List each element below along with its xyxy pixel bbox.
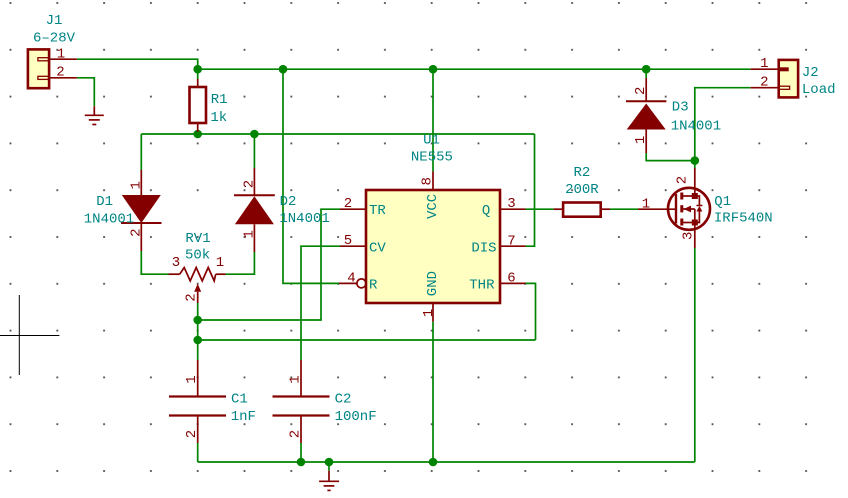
- svg-text:NE555: NE555: [411, 149, 453, 165]
- wire D2 bottom to RV1 pin1: [226, 252, 255, 274]
- svg-text:1: 1: [421, 309, 437, 317]
- resistor R1: [190, 79, 207, 132]
- svg-text:7: 7: [507, 233, 515, 249]
- svg-text:Load: Load: [802, 82, 836, 98]
- svg-text:1: 1: [128, 181, 144, 189]
- wire node R1-D1-D2-DIS horizontal: [141, 133, 534, 135]
- svg-text:1nF: 1nF: [231, 409, 256, 425]
- wire Q1 source down to GND rail: [694, 248, 696, 462]
- svg-text:R1: R1: [211, 92, 228, 108]
- wire THR horizontal node: [198, 339, 536, 341]
- svg-text:1: 1: [216, 255, 224, 271]
- wire VCC rail: [198, 68, 751, 70]
- svg-text:1: 1: [184, 375, 200, 383]
- capacitor C1: [169, 360, 226, 443]
- svg-text:5: 5: [344, 233, 352, 249]
- svg-text:D2: D2: [280, 194, 297, 210]
- svg-text:1: 1: [760, 56, 768, 72]
- svg-text:2: 2: [184, 430, 200, 438]
- junction R1 bottom: [193, 130, 202, 139]
- svg-text:1k: 1k: [210, 110, 227, 126]
- wire D3 top stub: [645, 69, 647, 78]
- junction rail/R1: [193, 65, 202, 74]
- wire VCC pin8 stub: [432, 69, 434, 171]
- svg-text:J2: J2: [802, 65, 819, 81]
- svg-text:GND: GND: [425, 271, 441, 296]
- wire THR down to node: [526, 283, 536, 340]
- potentiometer RV1: [169, 268, 226, 304]
- op-amp U1 NE555 body: [339, 171, 526, 321]
- wire D2 top stub: [253, 134, 255, 168]
- wires (green): [77, 59, 751, 471]
- ground symbol bottom: [319, 471, 339, 491]
- wire C1 bottom stub: [197, 443, 199, 462]
- connector J1: [28, 49, 77, 88]
- wire ground symbol stub: [328, 462, 330, 471]
- svg-text:6: 6: [507, 270, 515, 286]
- svg-text:1: 1: [633, 136, 649, 144]
- wire CV down to C2: [301, 246, 340, 360]
- svg-text:3: 3: [681, 232, 697, 240]
- svg-text:D1: D1: [96, 194, 113, 210]
- transistor Q1 IRF540N: [638, 168, 710, 248]
- junction U1 GND/rail: [429, 458, 438, 467]
- svg-text:Q1: Q1: [714, 194, 731, 210]
- wire R1 top stub: [197, 69, 199, 79]
- svg-text:C1: C1: [231, 392, 248, 408]
- svg-text:R: R: [369, 277, 378, 293]
- svg-text:2: 2: [675, 176, 691, 184]
- connector J2: [751, 60, 798, 98]
- diode D3: [626, 78, 666, 153]
- svg-text:1N4001: 1N4001: [84, 212, 134, 228]
- junction ground/GND rail: [325, 458, 334, 467]
- svg-text:IRF540N: IRF540N: [714, 211, 773, 227]
- svg-text:1: 1: [642, 197, 650, 213]
- svg-text:CV: CV: [369, 241, 386, 257]
- svg-text:100nF: 100nF: [335, 409, 377, 425]
- wire D3 bottom to drain node: [646, 153, 695, 161]
- wire C2 bottom stub: [300, 443, 302, 462]
- resistor R2: [554, 203, 610, 217]
- capacitor C2: [273, 360, 330, 443]
- junction D2 top: [250, 130, 259, 139]
- svg-text:Q: Q: [482, 203, 490, 219]
- svg-text:2: 2: [128, 228, 144, 236]
- junction rail/pin8: [429, 65, 438, 74]
- svg-text:2: 2: [56, 65, 64, 81]
- wire GND rail bottom: [198, 461, 695, 463]
- wire DIS up to node: [526, 134, 535, 246]
- wire D1 top stub: [140, 134, 142, 170]
- svg-text:3: 3: [507, 196, 515, 212]
- sheet cursor crosshair: [0, 295, 59, 375]
- svg-text:1: 1: [57, 46, 65, 62]
- wire J1 pin2 to ground: [77, 78, 94, 107]
- wire RV1 wiper down to C1: [197, 303, 199, 360]
- junction rail/reset wire: [279, 65, 288, 74]
- wire TR to wiper node: [198, 209, 340, 320]
- svg-text:D3: D3: [672, 100, 689, 116]
- svg-text:2: 2: [288, 430, 304, 438]
- svg-text:1N4001: 1N4001: [671, 119, 721, 135]
- svg-text:1N4001: 1N4001: [279, 211, 329, 227]
- junction wiper/THR: [193, 336, 202, 345]
- junction D3/drain: [691, 156, 700, 165]
- svg-text:2: 2: [633, 87, 649, 95]
- svg-text:2: 2: [344, 196, 352, 212]
- svg-text:DIS: DIS: [471, 241, 496, 257]
- svg-text:VCC: VCC: [425, 194, 441, 219]
- diode D1: [121, 170, 162, 251]
- ground symbol near J1: [85, 106, 104, 124]
- junction C2/GND rail: [297, 458, 306, 467]
- wire Q output to R2: [526, 208, 554, 210]
- wire R2 to Q1 gate: [610, 208, 638, 210]
- svg-text:U1: U1: [423, 132, 440, 148]
- RV1 wiper arrow: [194, 284, 201, 292]
- svg-text:R2: R2: [573, 165, 590, 181]
- wire VCC rail to reset pin: [283, 69, 339, 283]
- svg-text:50k: 50k: [185, 248, 210, 264]
- svg-text:2: 2: [760, 74, 768, 90]
- wire R1 bottom stub: [197, 132, 199, 134]
- wire D1 bottom to RV1 pin3: [141, 251, 168, 274]
- svg-text:6–28V: 6–28V: [33, 30, 76, 46]
- junction wiper/TR: [193, 316, 202, 325]
- junction rail/D3: [642, 65, 651, 74]
- wire J1 pin1 to VCC rail: [77, 59, 198, 69]
- wire J2 pin2 to drain: [695, 88, 751, 168]
- svg-text:2: 2: [241, 180, 257, 188]
- diode D2: [234, 168, 275, 252]
- svg-text:THR: THR: [469, 277, 495, 293]
- svg-text:1: 1: [241, 230, 257, 238]
- svg-text:2: 2: [184, 293, 200, 301]
- svg-text:C2: C2: [335, 392, 352, 408]
- svg-text:TR: TR: [369, 203, 386, 219]
- svg-text:4: 4: [347, 270, 355, 286]
- svg-text:J1: J1: [46, 13, 63, 29]
- svg-text:RV1: RV1: [185, 231, 210, 247]
- svg-text:8: 8: [420, 177, 436, 185]
- svg-text:1: 1: [288, 375, 304, 383]
- svg-text:200R: 200R: [565, 182, 599, 198]
- svg-text:3: 3: [172, 255, 180, 271]
- wire GND pin1 down: [432, 322, 434, 462]
